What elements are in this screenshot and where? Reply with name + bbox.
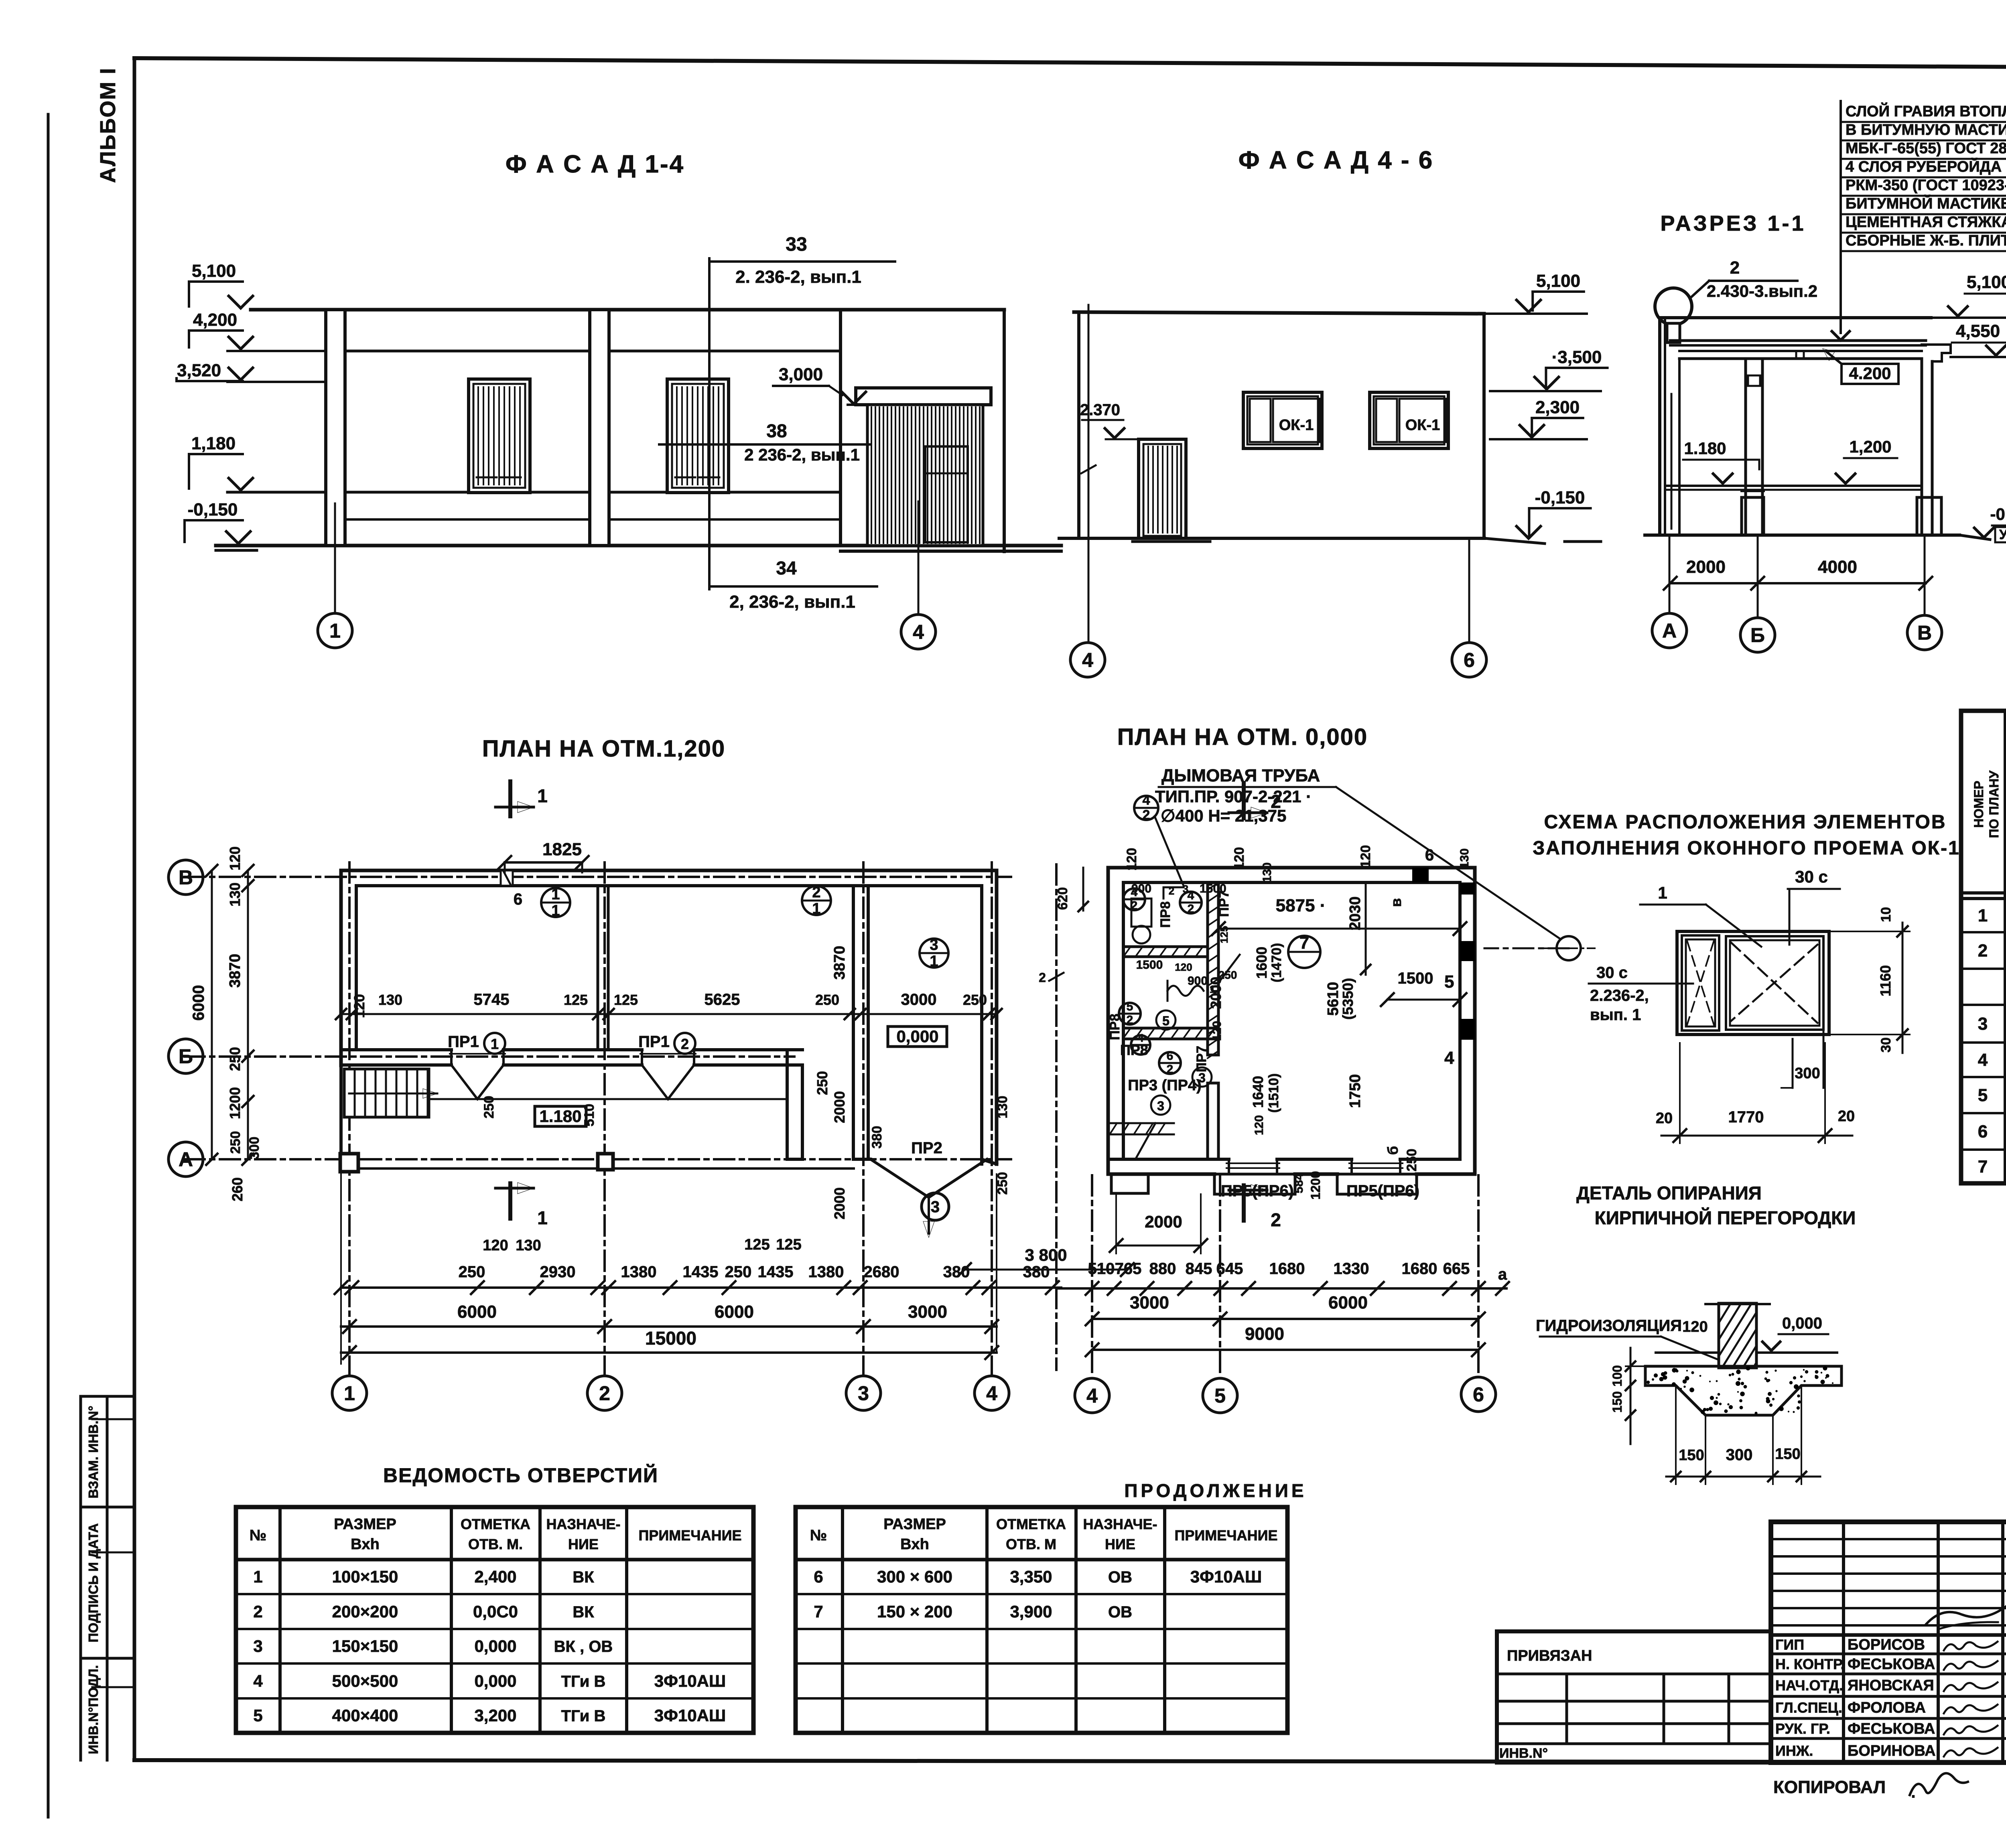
svg-text:НИЕ: НИЕ — [1105, 1536, 1135, 1552]
svg-text:300: 300 — [1726, 1446, 1753, 1464]
svg-text:5745: 5745 — [474, 991, 510, 1008]
svg-text:ПРОДОЛЖЕНИЕ: ПРОДОЛЖЕНИЕ — [1124, 1480, 1307, 1501]
svg-text:130: 130 — [378, 992, 402, 1008]
svg-text:1: 1 — [344, 1382, 355, 1405]
svg-text:В: В — [179, 866, 193, 889]
svg-text:1: 1 — [930, 953, 938, 970]
svg-text:МБК-Г-65(55) ГОСТ 2889-80 - 15: МБК-Г-65(55) ГОСТ 2889-80 - 15 — [1846, 140, 2006, 157]
svg-text:510: 510 — [1088, 1260, 1115, 1278]
svg-text:150: 150 — [1679, 1447, 1704, 1464]
svg-text:ВК: ВК — [573, 1568, 594, 1586]
svg-text:1: 1 — [537, 785, 548, 806]
svg-text:6000: 6000 — [715, 1302, 754, 1322]
svg-text:УР-3: УР-3 — [1999, 527, 2006, 542]
svg-text:ИНЖ.: ИНЖ. — [1775, 1743, 1813, 1759]
svg-text:125: 125 — [744, 1236, 770, 1253]
svg-text:ДЫМОВАЯ ТРУБА: ДЫМОВАЯ ТРУБА — [1161, 766, 1320, 785]
svg-text:250: 250 — [1404, 1149, 1419, 1172]
svg-text:4 СЛОЯ РУБЕРОЙДА МАРКИ: 4 СЛОЯ РУБЕРОЙДА МАРКИ — [1846, 157, 2006, 175]
svg-text:3,000: 3,000 — [779, 365, 823, 384]
svg-text:2.370: 2.370 — [1080, 401, 1120, 419]
svg-text:3Ф10АШ: 3Ф10АШ — [654, 1672, 726, 1690]
svg-text:7: 7 — [1978, 1157, 1988, 1177]
svg-text:2680: 2680 — [864, 1263, 899, 1281]
svg-text:4,200: 4,200 — [193, 310, 237, 330]
svg-text:ЗАПОЛНЕНИЯ ОКОННОГО ПРОЕМА ОК-: ЗАПОЛНЕНИЯ ОКОННОГО ПРОЕМА ОК-1 — [1533, 838, 1960, 859]
svg-text:400×400: 400×400 — [332, 1706, 398, 1725]
svg-text:900: 900 — [1188, 974, 1208, 988]
svg-text:1: 1 — [551, 886, 560, 903]
svg-text:7: 7 — [814, 1602, 823, 1621]
svg-text:120: 120 — [483, 1237, 508, 1254]
svg-text:(1470): (1470) — [1269, 943, 1284, 982]
svg-text:2, 236-2, вып.1: 2, 236-2, вып.1 — [729, 592, 855, 612]
svg-text:100×150: 100×150 — [332, 1567, 398, 1586]
svg-text:125: 125 — [564, 992, 588, 1008]
svg-text:300: 300 — [1795, 1065, 1820, 1082]
svg-text:Н. КОНТР.: Н. КОНТР. — [1775, 1656, 1845, 1672]
svg-text:1640: 1640 — [1250, 1076, 1266, 1108]
svg-text:120: 120 — [1232, 847, 1247, 870]
svg-text:А: А — [179, 1148, 193, 1171]
svg-text:0,0С0: 0,0С0 — [473, 1602, 518, 1621]
svg-text:34: 34 — [776, 558, 797, 578]
svg-text:6: 6 — [1464, 649, 1475, 671]
svg-text:ПР8: ПР8 — [1158, 901, 1173, 928]
svg-text:НИЕ: НИЕ — [568, 1536, 599, 1552]
svg-text:ПР7: ПР7 — [1194, 1046, 1209, 1072]
svg-text:ФЕСЬКОВА: ФЕСЬКОВА — [1848, 1656, 1935, 1673]
svg-text:3,520: 3,520 — [177, 361, 221, 380]
svg-text:1500: 1500 — [1398, 970, 1433, 987]
svg-text:2: 2 — [1271, 1209, 1281, 1230]
svg-text:500×500: 500×500 — [332, 1672, 398, 1690]
svg-text:3000: 3000 — [908, 1302, 947, 1322]
svg-text:ТГи В: ТГи В — [561, 1707, 606, 1725]
svg-text:2: 2 — [253, 1602, 262, 1621]
svg-text:150: 150 — [1775, 1446, 1800, 1463]
svg-text:2: 2 — [681, 1036, 689, 1052]
svg-text:6: 6 — [1978, 1122, 1988, 1142]
svg-text:№: № — [810, 1527, 827, 1544]
svg-text:3: 3 — [253, 1637, 262, 1655]
svg-text:ИНВ.N°ПОДЛ.: ИНВ.N°ПОДЛ. — [86, 1665, 101, 1754]
svg-text:584: 584 — [1292, 1173, 1306, 1193]
svg-text:ОВ: ОВ — [1108, 1603, 1132, 1621]
svg-text:ВК , ОВ: ВК , ОВ — [554, 1638, 613, 1655]
svg-text:ПЛАН НА ОТМ. 0,000: ПЛАН НА ОТМ. 0,000 — [1117, 724, 1368, 750]
svg-text:-0,150: -0,150 — [1535, 488, 1585, 507]
svg-text:380: 380 — [1023, 1263, 1050, 1281]
svg-text:2000: 2000 — [1208, 977, 1224, 1009]
svg-text:5610: 5610 — [1325, 982, 1342, 1016]
svg-text:ОК-1: ОК-1 — [1279, 417, 1314, 434]
svg-text:250: 250 — [815, 992, 839, 1008]
svg-text:ТГи В: ТГи В — [561, 1673, 606, 1690]
svg-text:38: 38 — [766, 420, 787, 441]
svg-text:1380: 1380 — [621, 1263, 657, 1281]
svg-text:645: 645 — [1216, 1260, 1243, 1278]
svg-text:120: 120 — [1682, 1319, 1708, 1335]
svg-text:№: № — [250, 1527, 266, 1544]
svg-text:150×150: 150×150 — [332, 1637, 398, 1655]
svg-text:130: 130 — [516, 1237, 541, 1254]
svg-text:5625: 5625 — [705, 991, 740, 1008]
svg-text:6: 6 — [1167, 1049, 1174, 1063]
svg-text:260: 260 — [229, 1177, 246, 1201]
svg-text:БОРИСОВ: БОРИСОВ — [1848, 1637, 1925, 1653]
svg-text:АЛЬБОМ I: АЛЬБОМ I — [96, 67, 120, 183]
svg-text:5: 5 — [1978, 1085, 1988, 1105]
svg-text:-0,150: -0,150 — [1990, 505, 2006, 523]
svg-text:2930: 2930 — [540, 1263, 576, 1281]
svg-text:4: 4 — [1978, 1050, 1988, 1070]
svg-text:2: 2 — [1039, 970, 1046, 985]
svg-text:1200: 1200 — [1308, 1171, 1323, 1199]
svg-text:КОПИРОВАЛ: КОПИРОВАЛ — [1773, 1777, 1886, 1797]
svg-text:1,200: 1,200 — [1849, 437, 1891, 456]
svg-text:б: б — [1385, 1146, 1401, 1155]
svg-text:250: 250 — [227, 1047, 243, 1071]
svg-text:7: 7 — [1299, 933, 1309, 953]
svg-text:4,550: 4,550 — [1956, 321, 2000, 341]
svg-text:900: 900 — [1131, 882, 1151, 895]
svg-text:5: 5 — [253, 1706, 262, 1725]
svg-text:ПРИВЯЗАН: ПРИВЯЗАН — [1507, 1647, 1592, 1664]
svg-text:5,100: 5,100 — [1967, 272, 2006, 292]
svg-text:33: 33 — [786, 234, 807, 255]
svg-text:130: 130 — [227, 882, 243, 907]
svg-text:РКМ-350 (ГОСТ 10923-82) НА: РКМ-350 (ГОСТ 10923-82) НА — [1846, 177, 2006, 194]
svg-text:В: В — [1917, 622, 1932, 644]
svg-text:3000: 3000 — [901, 991, 937, 1008]
svg-text:5,100: 5,100 — [192, 261, 236, 281]
svg-text:3870: 3870 — [227, 954, 244, 988]
svg-text:6000: 6000 — [190, 985, 207, 1021]
svg-text:ОТВ. М: ОТВ. М — [1006, 1536, 1056, 1552]
svg-text:3: 3 — [1978, 1014, 1988, 1034]
svg-text:ПР5(ПР6): ПР5(ПР6) — [1346, 1182, 1419, 1200]
svg-text:0,000: 0,000 — [896, 1027, 938, 1046]
svg-text:2: 2 — [812, 884, 820, 901]
svg-text:4: 4 — [1143, 793, 1150, 808]
svg-text:1: 1 — [1658, 883, 1667, 902]
svg-text:130: 130 — [1458, 848, 1471, 868]
svg-text:0,000: 0,000 — [474, 1637, 516, 1655]
svg-text:РАЗМЕР: РАЗМЕР — [334, 1516, 396, 1533]
svg-text:-0,150: -0,150 — [188, 500, 238, 519]
svg-text:120: 120 — [351, 994, 367, 1018]
svg-text:ОВ: ОВ — [1108, 1568, 1132, 1586]
svg-text:2000: 2000 — [831, 1187, 848, 1219]
svg-text:Bxh: Bxh — [351, 1536, 380, 1553]
svg-text:5: 5 — [1127, 1000, 1133, 1013]
svg-text:0,000: 0,000 — [1782, 1314, 1822, 1332]
svg-text:ДЕТАЛЬ ОПИРАНИЯ: ДЕТАЛЬ ОПИРАНИЯ — [1576, 1183, 1762, 1203]
svg-text:ПР8: ПР8 — [1120, 1042, 1148, 1058]
svg-text:1,180: 1,180 — [191, 434, 236, 453]
svg-text:1435: 1435 — [683, 1263, 719, 1281]
svg-text:30 с: 30 с — [1596, 964, 1628, 982]
svg-text:2000: 2000 — [831, 1091, 848, 1123]
svg-text:2: 2 — [1271, 791, 1281, 812]
svg-text:20: 20 — [1838, 1108, 1855, 1125]
svg-text:1500: 1500 — [1200, 882, 1226, 895]
svg-text:ПЛАН НА ОТМ.1,200: ПЛАН НА ОТМ.1,200 — [482, 736, 725, 762]
svg-text:ПР5(ПР6): ПР5(ПР6) — [1221, 1182, 1294, 1200]
svg-text:ПРИМЕЧАНИЕ: ПРИМЕЧАНИЕ — [639, 1527, 742, 1544]
svg-text:ЯНОВСКАЯ: ЯНОВСКАЯ — [1848, 1677, 1934, 1694]
svg-text:2,300: 2,300 — [1535, 398, 1580, 417]
svg-text:ОТМЕТКА: ОТМЕТКА — [461, 1516, 530, 1532]
svg-text:4: 4 — [986, 1382, 997, 1405]
svg-text:5: 5 — [1214, 1385, 1226, 1407]
svg-text:ОК-1: ОК-1 — [1405, 417, 1440, 434]
svg-text:4.200: 4.200 — [1849, 364, 1891, 383]
svg-text:ПР1: ПР1 — [638, 1033, 670, 1051]
svg-text:4: 4 — [1086, 1385, 1098, 1407]
svg-text:1: 1 — [253, 1567, 262, 1586]
svg-text:1: 1 — [329, 620, 341, 642]
svg-text:250: 250 — [481, 1096, 497, 1119]
svg-text:ОТМЕТКА: ОТМЕТКА — [996, 1516, 1066, 1532]
svg-text:СЛОЙ ГРАВИЯ ВТОПЛЕННЫЙ: СЛОЙ ГРАВИЯ ВТОПЛЕННЫЙ — [1846, 102, 2006, 120]
svg-text:а: а — [1498, 1266, 1507, 1283]
svg-text:2. 236-2, вып.1: 2. 236-2, вып.1 — [735, 267, 861, 287]
svg-text:3,200: 3,200 — [474, 1706, 516, 1725]
svg-text:6: 6 — [1473, 1383, 1484, 1406]
svg-text:1160: 1160 — [1877, 965, 1894, 996]
svg-text:вып. 1: вып. 1 — [1590, 1006, 1641, 1024]
svg-text:2030: 2030 — [1347, 897, 1364, 931]
svg-text:3,350: 3,350 — [1010, 1567, 1052, 1586]
svg-text:1825: 1825 — [542, 840, 582, 859]
svg-text:1: 1 — [537, 1207, 548, 1228]
svg-text:ФЕСЬКОВА: ФЕСЬКОВА — [1848, 1720, 1935, 1737]
svg-text:2.430-3.вып.2: 2.430-3.вып.2 — [1707, 282, 1817, 300]
svg-text:ПОДПИСЬ И ДАТА: ПОДПИСЬ И ДАТА — [86, 1523, 101, 1642]
svg-text:ИНВ.N°: ИНВ.N° — [1499, 1746, 1548, 1761]
svg-text:130: 130 — [1261, 862, 1274, 882]
svg-text:РАЗМЕР: РАЗМЕР — [883, 1516, 946, 1533]
svg-text:380: 380 — [943, 1263, 970, 1281]
svg-text:(1510): (1510) — [1266, 1073, 1281, 1113]
svg-text:30: 30 — [1878, 1037, 1894, 1053]
svg-text:1600: 1600 — [1253, 947, 1270, 979]
svg-text:ПР3 (ПР4): ПР3 (ПР4) — [1128, 1077, 1201, 1094]
svg-text:150: 150 — [1610, 1391, 1624, 1412]
svg-text:6: 6 — [514, 891, 522, 908]
svg-text:·3,500: ·3,500 — [1552, 347, 1602, 367]
svg-text:30 с: 30 с — [1795, 867, 1828, 886]
svg-text:3: 3 — [858, 1382, 869, 1405]
svg-text:4000: 4000 — [1818, 557, 1857, 577]
svg-text:125: 125 — [614, 992, 638, 1008]
svg-text:Ф А С А Д 4 - 6: Ф А С А Д 4 - 6 — [1239, 146, 1434, 174]
svg-text:20: 20 — [1656, 1110, 1673, 1127]
svg-text:2: 2 — [1730, 258, 1740, 278]
svg-text:А: А — [1662, 620, 1677, 642]
svg-text:150 × 200: 150 × 200 — [877, 1602, 952, 1621]
svg-text:2000: 2000 — [1145, 1212, 1182, 1231]
svg-text:120: 120 — [227, 846, 243, 870]
svg-text:10: 10 — [1878, 907, 1894, 922]
svg-text:5,100: 5,100 — [1536, 271, 1580, 291]
svg-text:6000: 6000 — [457, 1302, 497, 1322]
svg-text:Б: Б — [179, 1045, 193, 1068]
svg-text:250: 250 — [228, 1131, 243, 1154]
svg-text:СХЕМА РАСПОЛОЖЕНИЯ ЭЛЕМЕНТОВ: СХЕМА РАСПОЛОЖЕНИЯ ЭЛЕМЕНТОВ — [1544, 811, 1946, 833]
svg-text:2: 2 — [1167, 1063, 1174, 1076]
svg-text:ПР1: ПР1 — [448, 1033, 479, 1051]
svg-text:ГИДРОИЗОЛЯЦИЯ: ГИДРОИЗОЛЯЦИЯ — [1536, 1317, 1682, 1335]
svg-text:5: 5 — [1444, 972, 1454, 992]
svg-text:5875 ·: 5875 · — [1276, 896, 1326, 915]
svg-text:2: 2 — [599, 1382, 610, 1405]
svg-text:2.236-2,: 2.236-2, — [1590, 987, 1649, 1004]
svg-text:РАЗРЕЗ 1-1: РАЗРЕЗ 1-1 — [1660, 211, 1806, 235]
svg-text:1500: 1500 — [1136, 958, 1163, 972]
svg-text:6000: 6000 — [1328, 1293, 1368, 1312]
svg-text:200×200: 200×200 — [332, 1602, 398, 1621]
svg-text:880: 880 — [1149, 1260, 1176, 1278]
svg-text:ЦЕМЕНТНАЯ СТЯЖКА - 20: ЦЕМЕНТНАЯ СТЯЖКА - 20 — [1846, 214, 2006, 231]
svg-text:ФРОЛОВА: ФРОЛОВА — [1848, 1700, 1926, 1716]
svg-text:1: 1 — [1978, 906, 1988, 925]
svg-text:ПР2: ПР2 — [911, 1139, 942, 1157]
svg-text:120: 120 — [1175, 961, 1192, 973]
svg-text:665: 665 — [1443, 1260, 1470, 1278]
svg-text:380: 380 — [869, 1126, 885, 1149]
svg-text:2: 2 — [1169, 885, 1174, 897]
svg-text:250: 250 — [814, 1071, 830, 1095]
svg-text:Bxh: Bxh — [900, 1536, 929, 1553]
svg-text:2000: 2000 — [1686, 557, 1726, 577]
svg-text:300: 300 — [247, 1137, 262, 1160]
svg-text:120: 120 — [1210, 1021, 1224, 1041]
svg-text:6: 6 — [814, 1567, 823, 1586]
svg-text:510: 510 — [582, 1104, 597, 1127]
svg-text:4: 4 — [1082, 649, 1093, 671]
svg-text:1.180: 1.180 — [539, 1107, 581, 1126]
svg-text:4: 4 — [1444, 1048, 1454, 1068]
svg-text:120: 120 — [1124, 848, 1139, 871]
svg-text:3: 3 — [931, 1198, 940, 1216]
svg-text:120: 120 — [1358, 845, 1373, 868]
svg-text:2 236-2, вып.1: 2 236-2, вып.1 — [744, 445, 860, 464]
svg-text:1680: 1680 — [1269, 1260, 1305, 1278]
svg-text:БОРИНОВА: БОРИНОВА — [1848, 1743, 1936, 1759]
svg-text:4: 4 — [913, 621, 924, 643]
svg-text:В БИТУМНУЮ МАСТИКУ: В БИТУМНУЮ МАСТИКУ — [1846, 122, 2006, 138]
svg-text:765: 765 — [1115, 1260, 1142, 1278]
svg-text:НАЗНАЧЕ-: НАЗНАЧЕ- — [1083, 1516, 1157, 1532]
svg-text:Ф А С А Д 1-4: Ф А С А Д 1-4 — [506, 150, 684, 178]
svg-text:1750: 1750 — [1347, 1074, 1364, 1108]
svg-text:3: 3 — [1157, 1099, 1164, 1113]
svg-text:1: 1 — [551, 902, 560, 919]
svg-text:2: 2 — [1143, 807, 1150, 823]
svg-text:3,900: 3,900 — [1010, 1602, 1052, 1621]
svg-text:ПР8: ПР8 — [1107, 1014, 1123, 1040]
svg-text:6: 6 — [1425, 846, 1434, 864]
svg-text:250: 250 — [725, 1263, 752, 1281]
svg-text:1: 1 — [812, 900, 820, 917]
svg-text:ОТВ. М.: ОТВ. М. — [468, 1536, 523, 1552]
svg-text:в: в — [1388, 898, 1404, 907]
svg-text:125: 125 — [776, 1236, 801, 1253]
svg-text:ПО ПЛАНУ: ПО ПЛАНУ — [1987, 770, 2001, 838]
svg-text:15000: 15000 — [645, 1328, 696, 1349]
svg-text:3870: 3870 — [831, 946, 848, 980]
svg-text:250: 250 — [963, 992, 987, 1008]
svg-text:ВК: ВК — [573, 1603, 594, 1621]
svg-text:250: 250 — [459, 1263, 485, 1281]
svg-text:2: 2 — [1188, 903, 1194, 916]
svg-text:1680: 1680 — [1402, 1260, 1437, 1278]
svg-text:НОМЕР: НОМЕР — [1971, 781, 1986, 828]
svg-text:3Ф10АШ: 3Ф10АШ — [1190, 1567, 1262, 1586]
svg-text:НАЧ.ОТД.: НАЧ.ОТД. — [1775, 1677, 1843, 1694]
svg-text:∅400 H= 21,375: ∅400 H= 21,375 — [1161, 806, 1286, 825]
svg-text:620: 620 — [1055, 887, 1070, 910]
svg-text:ГИП: ГИП — [1775, 1637, 1804, 1653]
svg-text:9000: 9000 — [1245, 1324, 1284, 1344]
svg-text:БИТУМНОЙ МАСТИКЕ-: БИТУМНОЙ МАСТИКЕ- — [1846, 194, 2006, 212]
svg-text:ТИП.ПР. 907-2-221 ·: ТИП.ПР. 907-2-221 · — [1155, 787, 1312, 806]
svg-text:(5350): (5350) — [1340, 978, 1356, 1020]
svg-text:1: 1 — [491, 1036, 499, 1052]
svg-text:3000: 3000 — [1130, 1293, 1169, 1312]
svg-text:845: 845 — [1186, 1260, 1212, 1278]
svg-text:СБОРНЫЕ Ж-Б. ПЛИТЫ: СБОРНЫЕ Ж-Б. ПЛИТЫ — [1846, 232, 2006, 249]
svg-text:НАЗНАЧЕ-: НАЗНАЧЕ- — [546, 1516, 620, 1532]
svg-text:3: 3 — [930, 937, 938, 953]
svg-text:5: 5 — [1162, 1014, 1169, 1028]
svg-text:·: · — [1911, 1788, 1916, 1805]
svg-text:1435: 1435 — [758, 1263, 794, 1281]
svg-text:1200: 1200 — [227, 1087, 243, 1119]
svg-text:ПРИМЕЧАНИЕ: ПРИМЕЧАНИЕ — [1175, 1527, 1278, 1544]
svg-text:1380: 1380 — [808, 1263, 844, 1281]
svg-text:2: 2 — [1978, 941, 1988, 961]
svg-text:130: 130 — [995, 1096, 1010, 1119]
svg-text:1.180: 1.180 — [1684, 439, 1726, 458]
svg-text:ВЕДОМОСТЬ ОТВЕРСТИЙ: ВЕДОМОСТЬ ОТВЕРСТИЙ — [383, 1464, 658, 1487]
svg-text:4: 4 — [253, 1672, 263, 1690]
svg-text:1330: 1330 — [1334, 1260, 1369, 1278]
svg-text:1770: 1770 — [1728, 1108, 1764, 1126]
svg-text:2: 2 — [1127, 1014, 1133, 1027]
svg-text:300 × 600: 300 × 600 — [877, 1567, 952, 1586]
svg-text:120: 120 — [1253, 1115, 1266, 1135]
svg-text:РУК. ГР.: РУК. ГР. — [1775, 1720, 1830, 1737]
svg-text:2: 2 — [1131, 899, 1138, 913]
svg-text:3: 3 — [1183, 883, 1188, 895]
svg-text:3 800: 3 800 — [1025, 1246, 1067, 1264]
svg-text:3Ф10АШ: 3Ф10АШ — [654, 1706, 726, 1725]
svg-text:0,000: 0,000 — [474, 1672, 516, 1690]
svg-text:2,400: 2,400 — [474, 1567, 516, 1586]
svg-text:Б: Б — [1750, 624, 1765, 647]
svg-text:ГЛ.СПЕЦ.: ГЛ.СПЕЦ. — [1775, 1700, 1842, 1716]
svg-text:КИРПИЧНОЙ ПЕРЕГОРОДКИ: КИРПИЧНОЙ ПЕРЕГОРОДКИ — [1595, 1207, 1856, 1228]
svg-text:100: 100 — [1610, 1365, 1624, 1386]
